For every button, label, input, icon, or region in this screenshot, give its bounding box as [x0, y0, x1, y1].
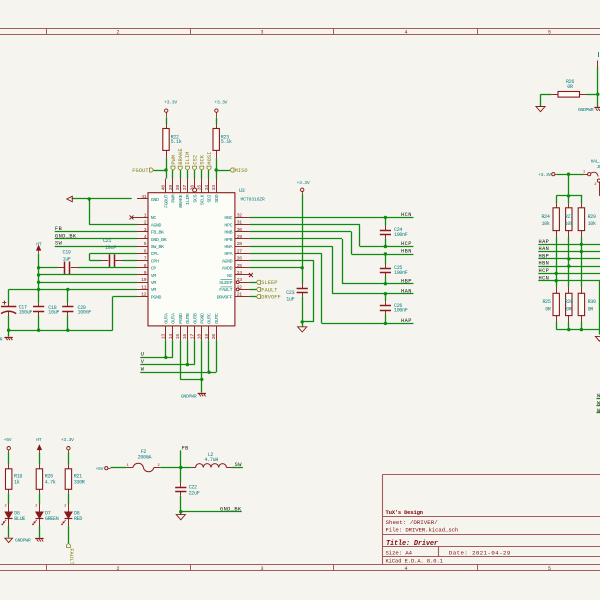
- svg-text:0R: 0R: [588, 306, 594, 312]
- U3 pin 40 FGOUT (top): [165, 179, 167, 193]
- unconnected arrow at GND wire end: [67, 196, 73, 202]
- svg-text:SDO: SDO: [214, 194, 220, 202]
- junction rail/C18: [37, 329, 40, 332]
- svg-text:SW: SW: [55, 241, 63, 247]
- svg-text:U: U: [141, 352, 144, 358]
- svg-text:10k: 10k: [588, 221, 596, 227]
- U3 pin 9 VM (left): [137, 274, 148, 276]
- svg-text:5.1k: 5.1k: [221, 139, 232, 145]
- svg-text:R30: R30: [588, 299, 596, 305]
- svg-text:29: 29: [237, 234, 243, 240]
- wire +5V to R19: [8, 453, 10, 465]
- svg-text:FB: FB: [182, 446, 189, 452]
- U3 pin 19 OUTC (bottom): [208, 326, 210, 340]
- +3.3V power symbol right: [301, 188, 304, 191]
- svg-text:100nF: 100nF: [394, 308, 408, 314]
- svg-text:HCN: HCN: [539, 275, 550, 281]
- svg-text:10uF: 10uF: [48, 310, 59, 316]
- wire SW to pin5: [55, 246, 137, 248]
- svg-text:CP: CP: [151, 266, 157, 272]
- resistor R23 5.1k: [216, 125, 218, 129]
- U3 pin 32 HNC (right): [235, 217, 250, 219]
- wire HT rail to C19: [39, 267, 58, 269]
- wire BRAKE label to pin 38: [180, 170, 182, 178]
- svg-text:Date: 2021-04-29: Date: 2021-04-29: [449, 549, 511, 556]
- svg-text:0R: 0R: [566, 306, 572, 312]
- svg-text:BLUE: BLUE: [14, 516, 25, 522]
- svg-text:12: 12: [141, 292, 147, 298]
- capacitor C20 100nF: [67, 289, 69, 302]
- svg-text:HAL_: HAL_: [591, 159, 600, 165]
- svg-text:HBP: HBP: [539, 254, 550, 260]
- hierarchical label CS2 (vertical): [193, 166, 197, 170]
- wire pin26 AGND jog: [250, 260, 314, 262]
- svg-text:FB_BK: FB_BK: [151, 230, 164, 236]
- svg-text:OUTA: OUTA: [164, 313, 170, 324]
- svg-text:OUTA: OUTA: [171, 313, 177, 324]
- power symbol +5V above R19: [7, 447, 10, 450]
- power symbol +3.3V above R21: [67, 447, 70, 450]
- svg-text:18: 18: [197, 334, 203, 340]
- svg-text:SW_BK: SW_BK: [151, 244, 164, 250]
- hierarchical label DRVOFF: [256, 295, 260, 299]
- wire pin27 HPA jog to HAP: [250, 253, 322, 255]
- svg-text:14: 14: [168, 334, 174, 340]
- svg-text:2: 2: [64, 505, 66, 509]
- U3 pin 14 OUTA (bottom): [172, 326, 174, 340]
- resistor R25 0R: [556, 287, 558, 294]
- svg-text:PGND: PGND: [178, 313, 184, 324]
- svg-text:HAN: HAN: [401, 288, 412, 294]
- wire pin31 HPC jog to HCP: [250, 224, 360, 226]
- U3 pin 29 HPB (right): [235, 238, 250, 240]
- U3 pin 16 OUTB (bottom): [187, 326, 189, 340]
- junction W/pin19: [207, 371, 210, 374]
- junction C26 bottom: [384, 322, 387, 325]
- svg-text:OUTC: OUTC: [214, 313, 220, 324]
- wire D6 to GNDPWR: [8, 526, 10, 538]
- wire FB to pin3: [55, 231, 137, 233]
- svg-text:Sheet: /DRIVER/: Sheet: /DRIVER/: [386, 519, 439, 526]
- svg-text:GND: GND: [151, 197, 159, 203]
- wire pin10 VM: [39, 282, 137, 284]
- ground symbol left of R26: [536, 107, 545, 112]
- svg-text:10k: 10k: [541, 221, 549, 227]
- U3 pin 21 DRVOFF (right): [235, 296, 250, 298]
- no-connect X on U3 pin 1: [132, 217, 138, 219]
- resistor R22 5.1k: [166, 125, 168, 129]
- wire jumper pin2 down right edge: [599, 182, 600, 196]
- svg-text:PWM: PWM: [171, 155, 177, 165]
- svg-text:100nF: 100nF: [394, 270, 408, 276]
- wire R20 to D7: [39, 493, 41, 504]
- svg-text:37: 37: [182, 185, 188, 191]
- wire R26 right to net: [587, 94, 598, 96]
- capacitor C25 100nF: [385, 254, 387, 264]
- svg-text:DRVOFF: DRVOFF: [261, 295, 281, 301]
- wire pin9 VM: [39, 274, 137, 276]
- svg-text:OUTB: OUTB: [192, 313, 198, 324]
- svg-text:CPH: CPH: [151, 258, 159, 264]
- resistor R28 0R: [568, 287, 570, 294]
- svg-text:VM: VM: [151, 280, 157, 286]
- svg-text:SDI: SDI: [207, 194, 213, 202]
- svg-text:HNC: HNC: [224, 215, 232, 221]
- wire to R27 top: [568, 196, 570, 204]
- svg-text:HCP: HCP: [401, 241, 412, 247]
- svg-text:GREEN: GREEN: [45, 516, 59, 522]
- svg-text:4.7uH: 4.7uH: [205, 457, 219, 463]
- U3 pin 2 AGND (left): [137, 224, 148, 226]
- hierarchical label SCK (vertical): [200, 166, 204, 170]
- svg-text:BRAKE: BRAKE: [178, 194, 184, 207]
- wire R19 to D6: [8, 493, 10, 504]
- svg-text:GND_BK: GND_BK: [220, 506, 242, 512]
- cut-off label stub right edge row3: [597, 412, 600, 414]
- svg-text:+3.3V: +3.3V: [538, 172, 551, 178]
- svg-text:HNA: HNA: [224, 244, 232, 250]
- svg-text:PWM: PWM: [171, 194, 177, 202]
- svg-text:17: 17: [189, 334, 195, 340]
- wire to R29 top: [581, 196, 583, 204]
- hierarchical label MOSI (vertical): [207, 166, 211, 170]
- junction R26 right: [596, 93, 599, 96]
- resistor R29 10k: [581, 204, 583, 208]
- svg-text:MOSI: MOSI: [207, 152, 213, 165]
- junction at R23 bottom: [215, 168, 218, 171]
- svg-text:1k: 1k: [14, 480, 20, 486]
- svg-text:5: 5: [548, 566, 551, 572]
- svg-text:RED: RED: [74, 516, 82, 522]
- wire rail up to pin12 PGND: [112, 297, 114, 331]
- wire L2 to SW label: [232, 467, 243, 469]
- svg-text:AVDD: AVDD: [222, 266, 233, 272]
- svg-text:SW: SW: [235, 462, 243, 468]
- wire GND_BK to pin4: [55, 238, 137, 240]
- svg-text:FAULT: FAULT: [68, 548, 74, 564]
- junction rail/GNDPWR stub: [7, 329, 10, 332]
- svg-text:C23: C23: [286, 290, 294, 296]
- svg-text:R24: R24: [541, 214, 549, 220]
- wire right edge vertical: [599, 281, 600, 330]
- junction R30 bottom: [580, 328, 583, 331]
- svg-text:GNDPWR: GNDPWR: [578, 107, 594, 113]
- wire D8 to FAULT label: [68, 526, 70, 543]
- junction HT/pin10 row: [37, 281, 40, 284]
- U3 pin 39 PWM (top): [172, 179, 174, 193]
- wire hall row HBP: [538, 258, 600, 260]
- wire HT rail: [38, 254, 40, 290]
- junction HCP: [555, 272, 558, 275]
- svg-text:5.1k: 5.1k: [171, 139, 182, 145]
- wire CS2 label to pin 36: [194, 170, 196, 178]
- svg-text:10: 10: [141, 277, 147, 283]
- svg-text:JP: JP: [597, 164, 600, 170]
- capacitor C26 100nF: [385, 294, 387, 302]
- svg-text:+5V: +5V: [95, 466, 103, 472]
- svg-text:35: 35: [197, 185, 203, 191]
- svg-text:200mA: 200mA: [138, 454, 152, 460]
- capacitor C23 1uF: [302, 284, 304, 288]
- U3 pin 41 GND (left): [137, 198, 148, 200]
- wire PGND bottom rail: [9, 330, 113, 332]
- svg-text:HPA: HPA: [224, 251, 232, 257]
- svg-text:3: 3: [260, 30, 263, 36]
- svg-text:File: DRIVER.kicad_sch: File: DRIVER.kicad_sch: [386, 527, 459, 534]
- +3.3V power symbol above R22: [165, 109, 168, 112]
- junction HT rail / VM row / C18: [37, 288, 40, 291]
- hierarchical label FAULT: [256, 287, 260, 291]
- vertical R27-R28 chain: [568, 237, 570, 287]
- junction C24 top: [384, 216, 387, 219]
- wire hall row HCP: [538, 273, 600, 275]
- svg-text:4.7k: 4.7k: [45, 480, 56, 486]
- U3 pin 8 CP (left): [137, 267, 148, 269]
- junction FB node: [179, 466, 182, 469]
- svg-text:FGOUT: FGOUT: [164, 194, 170, 207]
- power symbol GNDPWR under D7 (bar): [35, 538, 43, 540]
- wire R25 bottom: [556, 322, 558, 330]
- svg-text:SCK: SCK: [200, 154, 206, 165]
- svg-text:38: 38: [175, 185, 181, 191]
- ground symbol under C22: [180, 512, 182, 515]
- wire GND_BK node: [181, 511, 242, 513]
- wire +3.3V to R21: [68, 453, 70, 465]
- hierarchical label PWM (vertical): [171, 166, 175, 170]
- svg-text:HAP: HAP: [539, 239, 550, 245]
- svg-text:31: 31: [237, 220, 243, 226]
- no-connect X on U3 pin 24: [249, 273, 253, 277]
- junction AGND/C23 gnd: [301, 320, 304, 323]
- svg-text:15: 15: [175, 334, 181, 340]
- wire ILIM label to pin 37: [187, 170, 189, 178]
- svg-text:R25: R25: [542, 299, 550, 305]
- hierarchical label FGOUT: [149, 168, 153, 172]
- U3 pin 36 SCS (top): [193, 188, 197, 192]
- svg-text:VM: VM: [151, 287, 157, 293]
- U3 pin 34 SDI (top): [208, 179, 210, 193]
- svg-text:34: 34: [204, 185, 210, 191]
- wire pin6 CPL jog: [90, 253, 137, 255]
- junction HT/pin9 row: [37, 273, 40, 276]
- svg-text:HBN: HBN: [401, 249, 412, 255]
- wire pin32 HNC to HCN label: [250, 217, 414, 219]
- power symbol GNDPWR bottom-left: [8, 330, 10, 336]
- wire pin20 OUTC down: [216, 340, 218, 372]
- svg-text:VM: VM: [151, 273, 157, 279]
- capacitor C21 10nF: [101, 260, 108, 262]
- vertical R24-R25 chain: [556, 237, 558, 287]
- wire U: [140, 357, 173, 359]
- U3 pin 33 SDO (top): [216, 179, 218, 193]
- svg-text:NC: NC: [227, 273, 233, 279]
- svg-text:40: 40: [161, 185, 167, 191]
- svg-text:HPB: HPB: [224, 237, 232, 243]
- svg-text:33: 33: [211, 185, 217, 191]
- U3 pin 23 SLEEP (right): [236, 281, 239, 284]
- svg-text:ILIM: ILIM: [185, 194, 191, 205]
- cut-off label stub right edge row1: [597, 398, 600, 400]
- junction at R22 bottom: [164, 168, 167, 171]
- U3 pin 3 FB_BK (left): [137, 231, 148, 233]
- svg-text:22uF: 22uF: [189, 490, 200, 496]
- svg-text:TuX's Design: TuX's Design: [386, 509, 424, 516]
- wire pin41 GND to left arrow: [72, 198, 132, 200]
- svg-text:R28: R28: [565, 299, 573, 305]
- svg-text:2: 2: [116, 566, 119, 572]
- svg-text:39: 39: [168, 185, 174, 191]
- hierarchical label SLEEP: [256, 280, 260, 284]
- U3 pin 1 NC (left): [137, 217, 148, 219]
- wire FGOUT label to R22 column: [154, 170, 167, 172]
- svg-text:2: 2: [5, 505, 7, 509]
- U3 pin 26 AGND (right): [235, 260, 250, 262]
- svg-text:Title: Driver: Title: Driver: [386, 540, 438, 548]
- power symbol GNDPWR under IC: [198, 393, 206, 395]
- junction C22/GND_BK: [179, 510, 182, 513]
- svg-text:SCLK: SCLK: [200, 194, 206, 205]
- svg-text:2: 2: [116, 30, 119, 36]
- wire hall row HAN: [538, 251, 600, 253]
- wire R22 bottom to pin 40: [166, 158, 168, 178]
- junction HT/C19 row: [37, 266, 40, 269]
- wire hall row HBN: [538, 266, 600, 268]
- svg-text:+5V: +5V: [4, 437, 12, 443]
- wire pin25 AVDD to +3.3V rail: [250, 267, 302, 269]
- svg-text:OUTC: OUTC: [207, 313, 213, 324]
- svg-text:21: 21: [237, 292, 243, 298]
- junction C24 bottom: [384, 245, 387, 248]
- wire pin15 PGND down: [180, 340, 182, 379]
- capacitor C24 100nF: [385, 217, 387, 225]
- U3 pin 15 PGND (bottom): [180, 326, 182, 340]
- junction rail/C20: [66, 329, 69, 332]
- vertical R29-R30 chain: [581, 237, 583, 287]
- svg-text:13: 13: [161, 334, 167, 340]
- U3 pin 7 CPH (left): [137, 260, 148, 262]
- svg-text:ILIM: ILIM: [185, 152, 191, 165]
- svg-text:R29: R29: [588, 214, 596, 220]
- wire V: [140, 364, 194, 366]
- svg-text:HT: HT: [36, 437, 42, 443]
- svg-text:+3.3V: +3.3V: [214, 100, 227, 106]
- wire pin14 OUTA down: [172, 340, 174, 357]
- resistor R21 330R: [68, 465, 70, 469]
- junction HBP: [567, 257, 570, 260]
- wire R23 bottom to pin 33: [216, 158, 218, 178]
- svg-text:HBN: HBN: [539, 261, 550, 267]
- capacitor C19 1uF: [58, 267, 65, 269]
- svg-text:SLEEP: SLEEP: [219, 280, 232, 286]
- junction HAP: [580, 243, 583, 246]
- cut-off label stub right edge row2: [597, 405, 600, 407]
- svg-text:HNB: HNB: [224, 230, 232, 236]
- wire hall row HCN: [538, 280, 600, 282]
- wire pin29 HPB jog to HBP: [250, 238, 342, 240]
- junction hall split: [567, 194, 570, 197]
- svg-text:GNDPWR: GNDPWR: [15, 537, 31, 543]
- svg-text:C21: C21: [103, 238, 111, 244]
- svg-text:PGND: PGND: [200, 313, 206, 324]
- wire C19 to pin8 CP: [78, 267, 137, 269]
- svg-text:C19: C19: [63, 250, 71, 256]
- wire hall rail split: [556, 195, 582, 197]
- svg-text:CS2: CS2: [192, 155, 198, 165]
- hierarchical label BRAKE (vertical): [178, 166, 182, 170]
- hierarchical label MISO: [230, 168, 234, 172]
- junction U/pin13: [164, 356, 167, 359]
- wire +5V to F2: [111, 467, 127, 469]
- U3 pin 25 AVDD (right): [235, 267, 250, 269]
- svg-text:GNDPWR: GNDPWR: [181, 394, 197, 400]
- junction C26 top: [384, 292, 387, 295]
- wire pin13 OUTA down: [165, 340, 167, 357]
- svg-text:+3.3V: +3.3V: [61, 437, 74, 443]
- wire pin28 HNA jog to HAN: [250, 246, 333, 248]
- svg-text:HCP: HCP: [539, 268, 550, 274]
- +3.3V power symbol above R23: [215, 109, 218, 112]
- resistor R27 10k: [568, 204, 570, 208]
- svg-text:36: 36: [189, 185, 195, 191]
- capacitor C17 150uF polarized: [8, 289, 10, 303]
- wire R22 top: [166, 118, 168, 125]
- svg-text:0R: 0R: [545, 306, 551, 312]
- svg-text:2: 2: [35, 505, 37, 509]
- ground arrow bottom right (partial): [595, 336, 600, 341]
- U3 pin 11 VM (left): [137, 289, 148, 291]
- wire pin11 VM row: [9, 289, 137, 291]
- junction hall +3.3V: [567, 173, 570, 176]
- U3 pin 10 VM (left): [137, 282, 148, 284]
- svg-text:FGOUT: FGOUT: [132, 168, 148, 174]
- ground symbol under C23: [298, 327, 307, 332]
- svg-text:HCN: HCN: [401, 212, 412, 218]
- svg-text:R27: R27: [565, 214, 573, 220]
- junction HCN: [555, 279, 558, 282]
- junction HBN: [567, 264, 570, 267]
- svg-text:150uF: 150uF: [19, 309, 33, 315]
- svg-text:R19: R19: [14, 473, 22, 479]
- U3 pin 31 HPC (right): [235, 224, 250, 226]
- title block: [382, 474, 384, 565]
- resistor R20 4.7k: [39, 465, 41, 469]
- power symbol GNDPWR right edge: [594, 107, 600, 109]
- U3 pin 28 HNA (right): [235, 246, 250, 248]
- wire pin19 OUTC down: [208, 340, 210, 372]
- svg-text:22: 22: [237, 284, 243, 290]
- U3 pin 5 SW_BK (left): [137, 246, 148, 248]
- wire junction down to pin2 AGND: [89, 199, 91, 225]
- svg-text:100nF: 100nF: [394, 232, 408, 238]
- sheet border frame: [0, 28, 600, 30]
- wire pin30 HNB jog to HBN: [250, 231, 352, 233]
- svg-text:FAULT: FAULT: [261, 287, 277, 293]
- svg-text:R21: R21: [74, 473, 82, 479]
- wire SCK label to pin 35: [201, 170, 203, 178]
- wire R28 bottom: [568, 322, 570, 330]
- junction AVDD: [301, 266, 304, 269]
- U3 pin 20 OUTC (bottom): [216, 326, 218, 340]
- svg-text:25: 25: [237, 263, 243, 269]
- wire pin18 PGND down: [201, 340, 203, 392]
- wire hall rail down: [568, 174, 570, 196]
- wire R23 column to MISO label: [216, 170, 230, 172]
- svg-text:CPL: CPL: [151, 251, 159, 257]
- svg-text:4: 4: [404, 30, 407, 36]
- svg-text:FAULT: FAULT: [219, 287, 232, 293]
- junction R28 bottom: [567, 328, 570, 331]
- svg-text:24: 24: [237, 270, 243, 276]
